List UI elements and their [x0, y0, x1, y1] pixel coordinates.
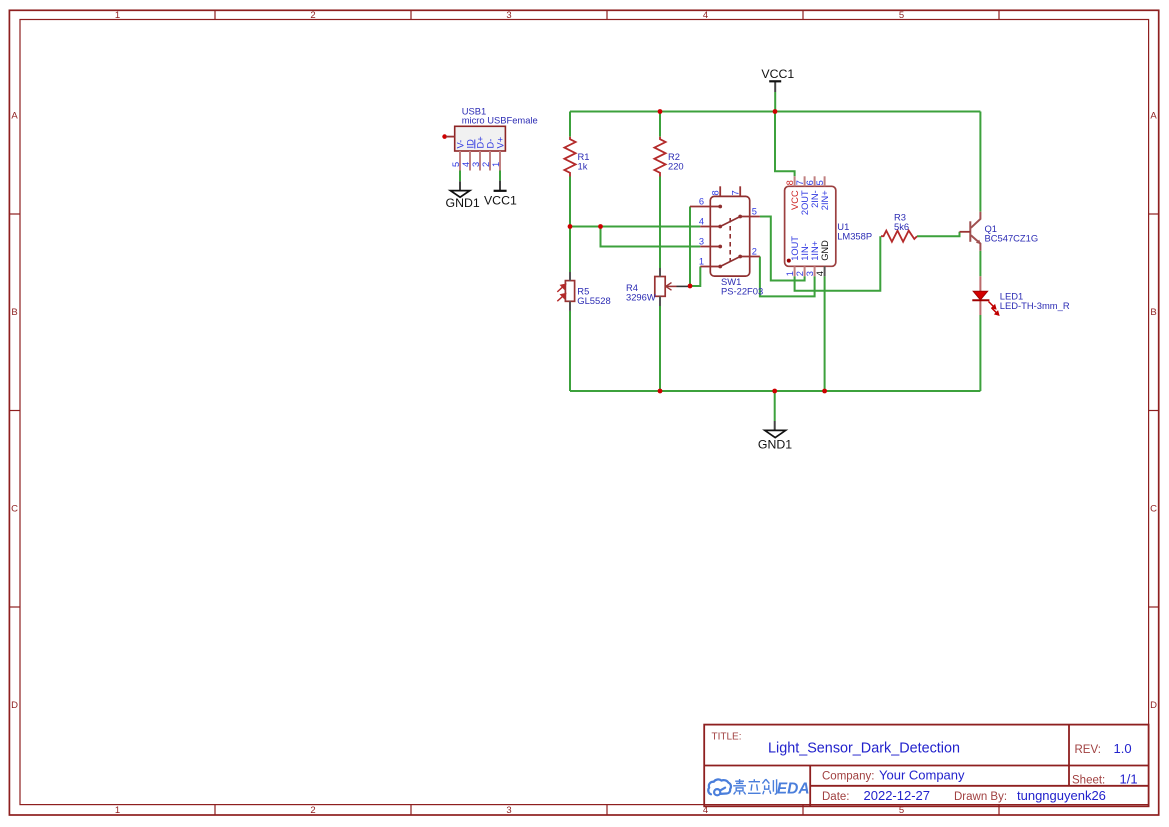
svg-text:LM358P: LM358P [837, 231, 872, 242]
svg-text:3: 3 [805, 271, 815, 276]
svg-text:8: 8 [785, 180, 795, 185]
svg-text:BC547CZ1G: BC547CZ1G [985, 232, 1039, 243]
svg-text:1IN-: 1IN- [800, 243, 810, 261]
svg-text:7: 7 [795, 180, 805, 185]
svg-text:Light_Sensor_Dark_Detection: Light_Sensor_Dark_Detection [768, 741, 960, 757]
svg-text:GND: GND [820, 240, 830, 261]
svg-text:GND1: GND1 [758, 438, 792, 452]
svg-text:Drawn By:: Drawn By: [954, 791, 1007, 803]
svg-text:1IN+: 1IN+ [810, 241, 820, 261]
svg-text:3: 3 [506, 10, 511, 21]
svg-text:2IN-: 2IN- [810, 190, 820, 208]
svg-text:B: B [11, 307, 17, 318]
svg-text:4: 4 [461, 162, 471, 167]
svg-text:1: 1 [699, 257, 704, 267]
svg-text:1: 1 [785, 271, 795, 276]
svg-text:ID: ID [465, 139, 475, 149]
svg-text:VCC: VCC [790, 190, 800, 210]
svg-text:C: C [1150, 504, 1157, 515]
svg-text:5k6: 5k6 [894, 221, 909, 232]
svg-text:Company:: Company: [822, 771, 874, 783]
svg-text:4: 4 [815, 271, 825, 276]
svg-text:6: 6 [699, 197, 704, 207]
svg-text:micro USBFemale: micro USBFemale [462, 115, 538, 126]
svg-text:Date:: Date: [822, 791, 850, 803]
svg-text:REV:: REV: [1075, 744, 1101, 756]
svg-text:EDA: EDA [777, 781, 810, 798]
svg-text:B: B [1150, 307, 1156, 318]
svg-text:5: 5 [815, 180, 825, 185]
svg-text:tungnguyenk26: tungnguyenk26 [1017, 788, 1106, 803]
svg-text:PS-22F03: PS-22F03 [721, 286, 763, 297]
svg-text:1: 1 [491, 162, 501, 167]
svg-text:1.0: 1.0 [1114, 741, 1132, 756]
svg-text:8: 8 [710, 190, 720, 195]
svg-text:4: 4 [699, 217, 704, 227]
svg-text:VCC1: VCC1 [484, 194, 517, 208]
svg-text:VCC1: VCC1 [761, 67, 794, 81]
svg-text:2: 2 [752, 247, 757, 257]
svg-text:3: 3 [699, 237, 704, 247]
svg-text:7: 7 [730, 190, 740, 195]
svg-text:V-: V- [455, 140, 465, 149]
svg-text:1OUT: 1OUT [790, 236, 800, 261]
svg-text:GL5528: GL5528 [577, 295, 610, 306]
svg-text:D: D [11, 700, 18, 711]
svg-text:V+: V+ [495, 137, 505, 149]
svg-text:2: 2 [310, 10, 315, 21]
svg-text:D+: D+ [475, 136, 485, 148]
svg-text:5: 5 [451, 162, 461, 167]
svg-text:3: 3 [506, 805, 511, 816]
svg-text:6: 6 [805, 180, 815, 185]
svg-text:1k: 1k [578, 161, 588, 172]
svg-text:3: 3 [471, 162, 481, 167]
svg-text:Your Company: Your Company [879, 768, 965, 783]
svg-text:2OUT: 2OUT [800, 190, 810, 215]
svg-text:2: 2 [310, 805, 315, 816]
svg-text:LED-TH-3mm_R: LED-TH-3mm_R [1000, 300, 1070, 311]
svg-text:Sheet:: Sheet: [1072, 774, 1105, 786]
svg-text:A: A [1150, 111, 1157, 122]
svg-text:TITLE:: TITLE: [712, 732, 742, 743]
svg-text:4: 4 [703, 10, 708, 21]
svg-text:D: D [1150, 700, 1157, 711]
svg-text:1/1: 1/1 [1120, 771, 1138, 786]
svg-text:3296W: 3296W [626, 292, 656, 303]
svg-text:1: 1 [115, 10, 120, 21]
svg-text:D-: D- [485, 139, 495, 149]
svg-text:5: 5 [752, 207, 757, 217]
svg-text:220: 220 [668, 161, 684, 172]
svg-text:A: A [11, 111, 18, 122]
svg-text:5: 5 [899, 10, 904, 21]
svg-text:GND1: GND1 [446, 196, 480, 210]
svg-text:2022-12-27: 2022-12-27 [864, 788, 931, 803]
svg-text:C: C [11, 504, 18, 515]
svg-text:2: 2 [795, 271, 805, 276]
svg-text:2IN+: 2IN+ [820, 190, 830, 210]
svg-text:1: 1 [115, 805, 120, 816]
svg-text:2: 2 [481, 162, 491, 167]
